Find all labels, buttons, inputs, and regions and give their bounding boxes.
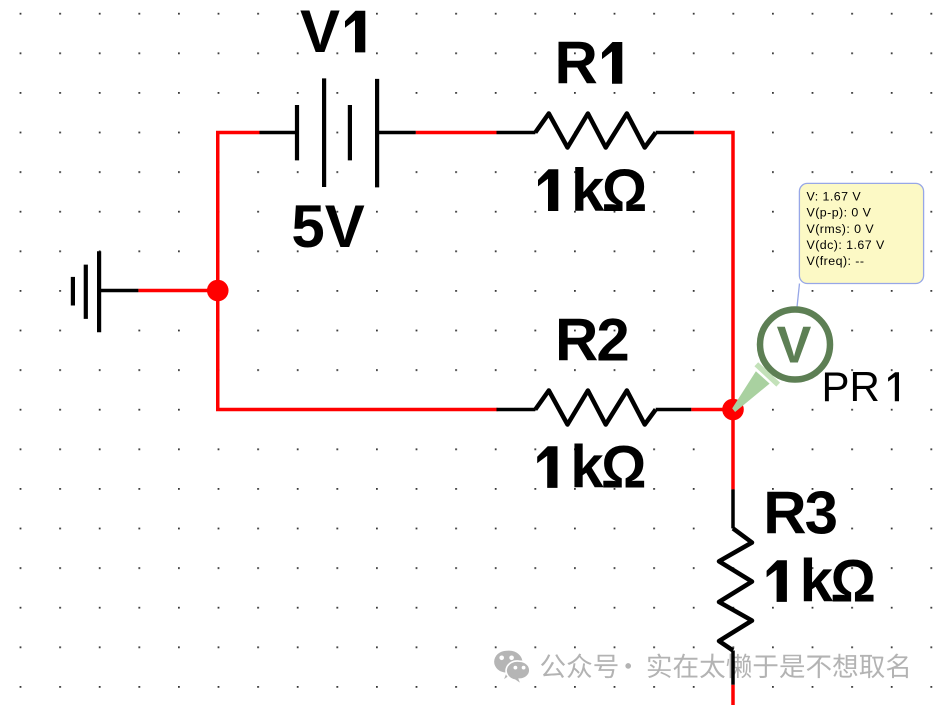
value R1 1kΩ	[538, 157, 647, 224]
svg-text:Ω: Ω	[602, 157, 647, 224]
svg-text:V(rms): 0 V: V(rms): 0 V	[807, 222, 875, 236]
ground	[73, 251, 138, 332]
value R2 1kΩ	[537, 433, 646, 500]
svg-text:k: k	[570, 433, 604, 500]
svg-text:PR: PR	[822, 363, 880, 410]
svg-text:k: k	[571, 157, 605, 224]
wire battery negative to node A	[218, 133, 260, 291]
svg-text:R2: R2	[555, 307, 628, 374]
wire R3 bottom	[731, 685, 735, 705]
resistor R3	[719, 489, 752, 684]
wire node B to R3 top	[731, 410, 735, 490]
label R1	[555, 29, 623, 96]
svg-text:R: R	[555, 29, 598, 96]
junction node B	[722, 399, 744, 421]
svg-text:V: V	[300, 0, 340, 65]
wire ground to node A	[138, 289, 217, 293]
label PR1	[822, 363, 900, 410]
wire R2 right to node B	[691, 408, 733, 412]
watermark wechat icon	[494, 651, 530, 685]
wire node A to R2 left	[218, 289, 498, 410]
svg-text:k: k	[800, 548, 834, 615]
svg-text:V(freq): --: V(freq): --	[807, 254, 865, 268]
wire R1 right to node B	[694, 133, 733, 410]
svg-text:V(p-p): 0 V: V(p-p): 0 V	[807, 206, 872, 220]
svg-text:R3: R3	[763, 480, 836, 547]
wire battery positive to R1 left	[416, 131, 497, 135]
svg-text:Ω: Ω	[830, 548, 875, 615]
battery V1	[260, 78, 416, 187]
svg-text:V: 1.67 V: V: 1.67 V	[807, 190, 862, 204]
watermark text 公众号·实在太懒于是不想取名	[541, 653, 908, 678]
tooltip connector	[797, 284, 800, 308]
resistor R2	[497, 391, 692, 425]
svg-text:V: V	[777, 317, 812, 375]
tooltip probe readings	[799, 183, 923, 283]
probe PR1 circle	[760, 310, 830, 380]
svg-text:V(dc): 1.67 V: V(dc): 1.67 V	[807, 238, 885, 252]
svg-text:5V: 5V	[291, 193, 364, 260]
probe PR1 needle	[732, 364, 778, 412]
label V1	[300, 0, 365, 65]
junction node A	[207, 280, 229, 302]
svg-text:Ω: Ω	[601, 434, 646, 501]
resistor R1	[497, 114, 694, 148]
value R3 1kΩ	[767, 548, 876, 615]
